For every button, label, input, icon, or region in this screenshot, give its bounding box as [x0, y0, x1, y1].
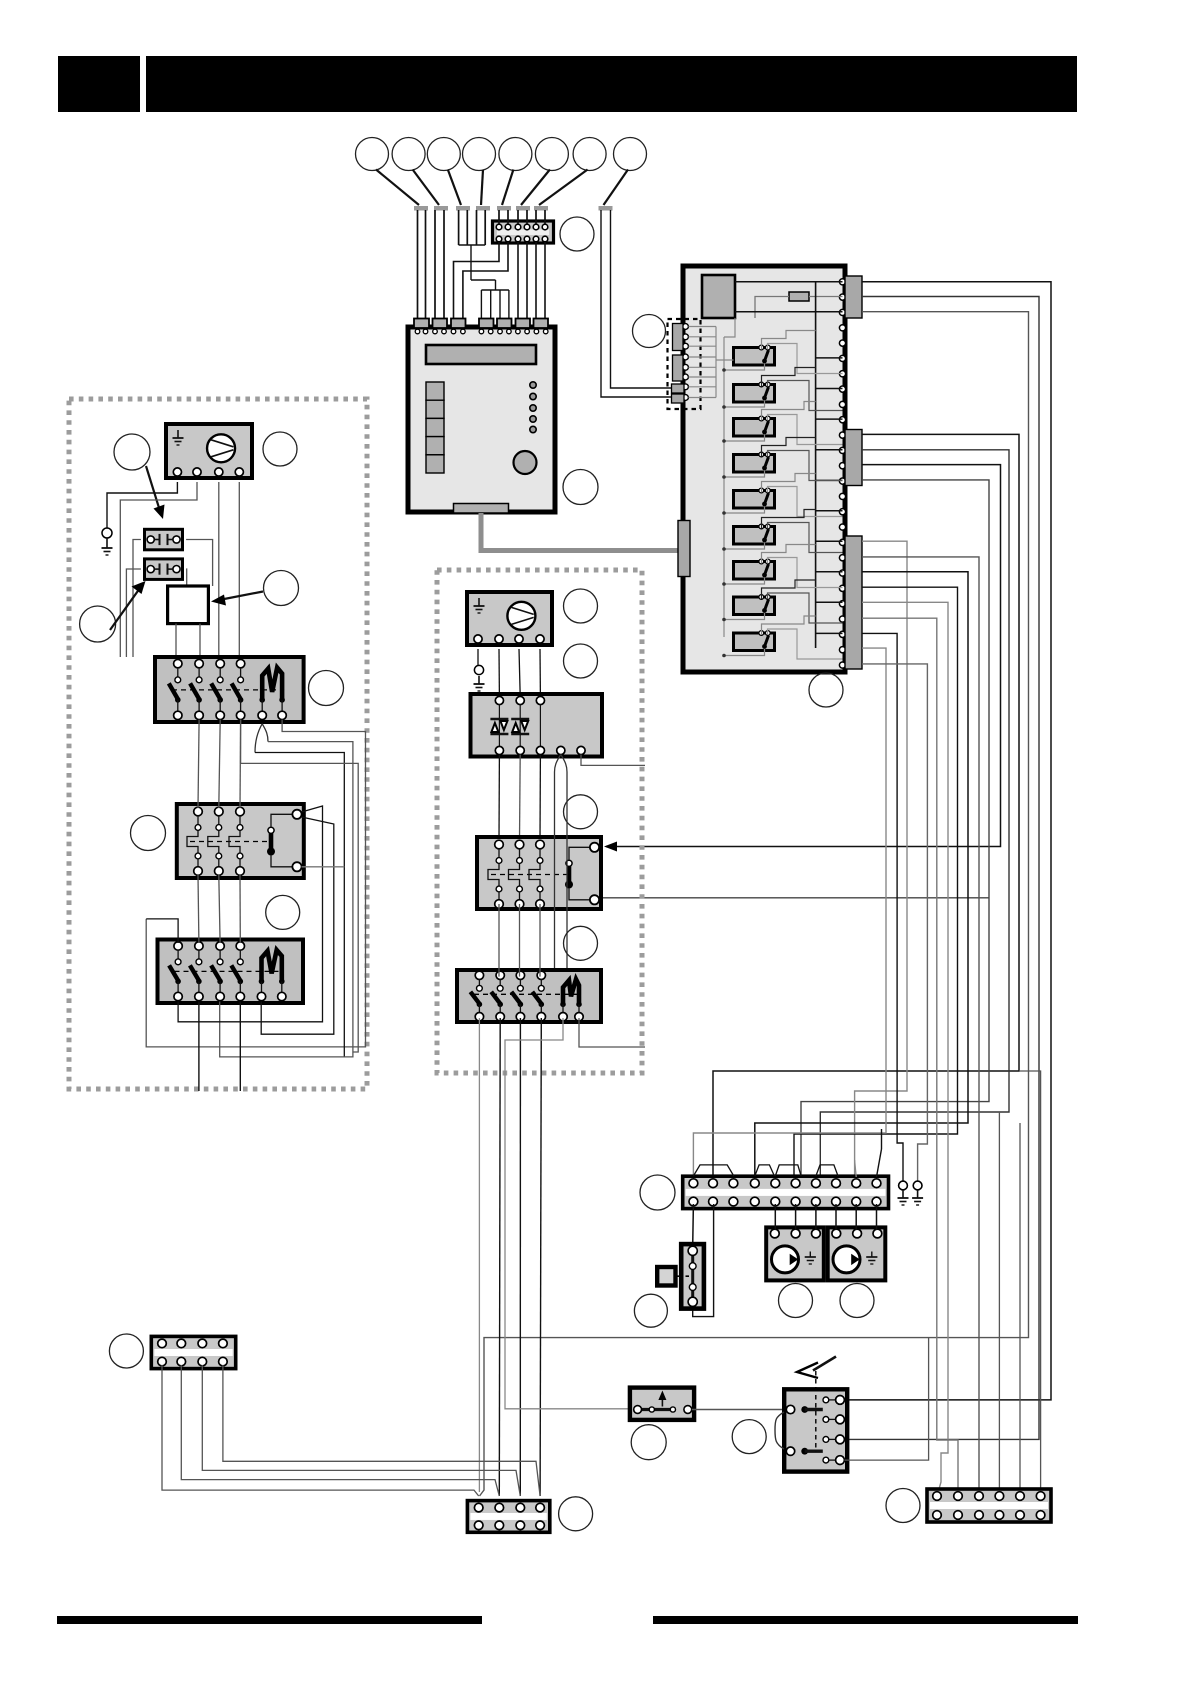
callout circle CN [560, 217, 594, 251]
callout circle B1 [564, 589, 598, 623]
callout circle top 7 [573, 138, 606, 171]
cable marker 2 [434, 206, 448, 211]
callout circle top 8 [614, 138, 647, 171]
relay K3 [734, 416, 775, 436]
strip D gland 2 [755, 1165, 775, 1176]
valve lever indicator [797, 1363, 818, 1379]
controller LED 1 [530, 382, 536, 388]
terminal strip D [683, 1176, 889, 1208]
earth terminal G1 [899, 1181, 908, 1190]
earth wire B [477, 649, 479, 665]
loop contactor A right top fan1 [178, 806, 322, 1022]
wire relay A1 to contactor c3 [239, 720, 242, 808]
wire feeder strip F c6 [1019, 1123, 1021, 1496]
CN terminal top 1 [496, 224, 502, 230]
wire C2 to strip E [181, 1365, 499, 1496]
wire valve pair4 right [845, 1338, 929, 1461]
sensor strip H [681, 1244, 704, 1309]
wire F1 right [186, 540, 213, 587]
callout circle A2 [263, 432, 297, 466]
terminal strip C [151, 1336, 235, 1368]
wire F2 right [185, 569, 188, 586]
left terminals wiring [689, 326, 717, 328]
relay unit plug block C [845, 536, 862, 669]
relay K2 [734, 382, 775, 402]
relay K5 coil wire [724, 507, 765, 514]
relay unit fuse [789, 292, 809, 301]
controller cable gland 5 [497, 319, 512, 329]
cable marker 7 [534, 206, 548, 211]
loop relay A1 col6 [146, 720, 365, 1047]
wire relay A1 to contactor c2 [219, 720, 220, 808]
controller module A (white box) [168, 586, 209, 624]
CN terminal bottom 1 [496, 236, 502, 242]
sensor switch box [657, 1267, 675, 1286]
relay K6 [734, 524, 775, 544]
contactor bank A [177, 804, 304, 878]
callout circle A5 [309, 671, 344, 706]
wire feeder strip F c4 [1019, 1071, 1041, 1496]
callout circle F [886, 1489, 920, 1523]
leader line 8 [604, 170, 629, 206]
leader line 4 [481, 170, 483, 206]
callout circle top 1 [356, 138, 389, 171]
controller LED 4 [530, 416, 536, 422]
connector block CN [493, 221, 554, 243]
module riser [724, 318, 735, 337]
strip D gland 3 [775, 1165, 801, 1176]
strip D gland 1 [693, 1165, 733, 1176]
controller LED 2 [530, 393, 536, 399]
leader line 6 [521, 170, 550, 206]
wire T21 to strip D [794, 587, 958, 1176]
twisted pair triac B [555, 755, 568, 773]
left port block 1 [673, 324, 684, 351]
wire C1 to strip E [162, 1365, 479, 1496]
loop twisted L [255, 753, 344, 1057]
controller cable gland 6 [516, 319, 531, 329]
footer rule right [653, 1616, 1078, 1624]
callout circle C [109, 1334, 143, 1368]
wire T1 to valve [845, 282, 1052, 1400]
3-way valve M [784, 1389, 847, 1471]
controller LED 5 [530, 426, 536, 432]
relay K3 coil wire [724, 435, 765, 442]
terminal strip E [467, 1501, 549, 1533]
controller button 2 [426, 400, 444, 418]
wires strip D to pump P1 [774, 1204, 776, 1230]
wire T2 to valve [845, 297, 1040, 1440]
loop contactor A right bottom [302, 866, 345, 868]
bus to blocks 4-5 [481, 289, 509, 291]
capacitor filter F2 [145, 559, 183, 580]
wire T13 to strip D gland [820, 450, 1009, 1179]
enclosure B dashed border [437, 570, 642, 1073]
wire contactor bottoms to relay A2 [197, 875, 200, 943]
relay unit body [683, 266, 845, 672]
relay unit plug block B [845, 430, 862, 486]
wire relay A1 to contactor c1 [198, 720, 199, 808]
wire T22 to strip F [862, 602, 948, 1496]
wire T25 to strip D [693, 648, 886, 1176]
wire F1 left [133, 540, 141, 658]
wire T3 to terminal strip E1 [480, 312, 1029, 1496]
earth pigtail A [102, 528, 112, 538]
CN wires bottom3-6 to blocks 6-7 [517, 242, 519, 319]
relay K6 coil wire [724, 543, 765, 550]
callout circle top 3 [427, 138, 460, 171]
CN terminal top 4 [524, 224, 530, 230]
leader arrow A4 [219, 592, 263, 601]
relay control wiring mesh [762, 331, 816, 350]
loop contactor A right top fan2 [261, 817, 334, 1034]
wire pair cable4 [476, 210, 478, 245]
callout circle P1 [779, 1284, 813, 1318]
callout circle controller [563, 470, 598, 505]
leader arrow A3 [110, 588, 140, 630]
callout circle FS [631, 1425, 666, 1460]
wire triac B right [581, 755, 645, 766]
wire T15 branch [801, 480, 989, 1176]
pump P1 [766, 1227, 824, 1280]
page header bar [146, 56, 1077, 112]
relay K8 [734, 595, 775, 615]
wire fan t4 [238, 482, 240, 657]
callout circle D [640, 1175, 675, 1210]
leader line 3 [448, 170, 461, 206]
cable marker 5 [497, 206, 511, 211]
CN terminal bottom 6 [542, 236, 548, 242]
controller unit body [408, 327, 555, 512]
callout circle top 2 [392, 138, 425, 171]
cable marker 6 [516, 206, 530, 211]
wire C3 to strip E [202, 1365, 520, 1496]
leader arrow A1 [146, 466, 160, 511]
wires strip D to pump P2 [835, 1204, 837, 1230]
dashed link sensor [677, 1275, 690, 1277]
callout circle B4 [564, 926, 598, 960]
strip D inlet diagonal [881, 1129, 883, 1149]
air handler unit B [467, 592, 552, 645]
internal bus stubs [816, 357, 843, 359]
relay unit module [702, 275, 735, 318]
controller cable gland 2 [433, 319, 448, 329]
cable marker 4 [476, 206, 490, 211]
pump P2 [828, 1227, 886, 1280]
wire relay B2 col1 down [478, 1018, 480, 1492]
relay K1 coil wire [724, 364, 765, 371]
module wire to terminal 1 [735, 281, 843, 283]
wire T24 to earth G1 [862, 633, 903, 1181]
controller cable gland 7 [534, 319, 549, 329]
cable marker 3 [456, 206, 470, 211]
heater relay bank A2 [158, 940, 304, 1004]
wires module A down [175, 624, 177, 657]
wire relay B2 col2 down [498, 1018, 501, 1496]
heater relay bank B2 [457, 970, 601, 1022]
relay K8 coil wire [724, 613, 765, 620]
wire pair cable1 [417, 210, 419, 319]
controller cable gland 1 [414, 319, 429, 329]
wire fan t2 [120, 482, 197, 657]
leader line 1 [376, 170, 419, 206]
relay unit left terminals [683, 324, 689, 330]
callout circle H [634, 1294, 667, 1327]
leader line 2 [413, 170, 439, 206]
CN terminal bottom 4 [524, 236, 530, 242]
CN terminal top 2 [505, 224, 511, 230]
stub wires relay A2 below [198, 1002, 200, 1092]
wire flow switch to valve [692, 1409, 786, 1411]
controller knob [514, 451, 537, 474]
callout circle A1 [114, 434, 150, 470]
wire C4 to strip E [223, 1365, 540, 1496]
wire relay B2 heater right [579, 1018, 645, 1047]
controller cable gland 3 [451, 319, 466, 329]
wire T14 arrow to contactor [606, 465, 1001, 847]
bus junction cable3-4 [459, 244, 486, 246]
callout circle top 6 [535, 138, 568, 171]
callout circle top 4 [463, 138, 496, 171]
left port block 2 [673, 355, 684, 381]
CN terminal bottom 3 [515, 236, 521, 242]
CN terminal top 5 [533, 224, 539, 230]
enclosure A dashed border [69, 399, 367, 1089]
callout circle A6 [131, 816, 166, 851]
leader line 5 [502, 170, 513, 206]
strip D gland 4 [816, 1165, 838, 1176]
loop twisted R [220, 742, 353, 1057]
relay K4 coil wire [724, 471, 765, 478]
wire pair cable2 [434, 210, 436, 319]
internal bus vertical [815, 282, 817, 648]
CN terminal bottom 5 [533, 236, 539, 242]
wire T26 to earth G2 [862, 664, 927, 1181]
footer rule left [57, 1616, 482, 1624]
air handler unit A [166, 424, 252, 478]
controller button 1 [426, 382, 444, 400]
relay K9 coil wire [724, 649, 765, 656]
earth terminal G2 [913, 1181, 922, 1190]
wire relay B2 col4 down [540, 1018, 541, 1496]
relay K2 coil wire [724, 401, 765, 408]
CN wires up to markers [498, 210, 500, 224]
valve bypass brace [775, 1412, 784, 1449]
relay unit plug block A [845, 276, 862, 318]
capacitor filter F1 [145, 529, 183, 550]
callout circle relay unit [809, 673, 843, 707]
controller button 3 [426, 418, 444, 436]
relay K1 [734, 345, 775, 365]
triac module B [471, 694, 603, 757]
wire F2 left [126, 569, 140, 657]
twisted pair relay A1 [255, 724, 268, 753]
wire fan t3 [218, 482, 220, 657]
relay unit right terminals [839, 279, 845, 285]
wire pair cable8 to relay unit [601, 210, 672, 397]
relay unit inlet block [678, 521, 690, 577]
wire T20 to strip D [755, 572, 968, 1179]
internal left bus [723, 337, 725, 637]
wires contactor B to relay B2 [498, 904, 500, 977]
wire T15 contactor branch [601, 897, 989, 899]
controller top terminals [415, 329, 420, 334]
flow switch box [630, 1388, 694, 1420]
module wire to terminal 3 [735, 311, 843, 313]
CN wire bottom2 to block3 [463, 242, 508, 319]
wire T18 to strip D [855, 541, 907, 1179]
arrowhead at contactor [604, 842, 617, 852]
CN wire bottom1 to block3 [454, 242, 500, 319]
heater relay bank A1 [155, 657, 304, 722]
CN terminal top 6 [542, 224, 548, 230]
wire T23 to strip F [862, 618, 958, 1496]
contactor bank B [477, 837, 601, 909]
left port block 4 [672, 394, 685, 403]
callout circle B2 [564, 644, 598, 678]
terminal strip F [927, 1489, 1051, 1522]
wires fan B to triac [498, 649, 500, 696]
controller cable gland 4 [479, 319, 494, 329]
wire relay B2 col3 down [519, 1018, 521, 1496]
controller LED 3 [530, 405, 536, 411]
branch relay A1 col4 [241, 720, 359, 1052]
sensor loop wire [693, 1204, 714, 1317]
callout circle A4 [264, 571, 299, 606]
relay K9 [734, 631, 775, 651]
flow switch arrow [661, 1394, 663, 1407]
controller button 5 [426, 455, 444, 473]
flow switch contacts [638, 1408, 673, 1411]
wire T19 to strip F [862, 557, 979, 1496]
wire pair cable3 [458, 210, 460, 245]
wire strip D to sensor strip [692, 1204, 695, 1246]
wire feeder strip F c5 [998, 1112, 1000, 1496]
callout circle left port [633, 315, 666, 348]
leader line 7 [539, 170, 588, 206]
relay unit left port dashed box [668, 319, 701, 409]
CN terminal top 3 [515, 224, 521, 230]
earth wire A [107, 482, 177, 528]
controller button 4 [426, 437, 444, 455]
wires triac to contactor B [498, 755, 500, 841]
callout circle A3 [80, 606, 116, 642]
callout circle P2 [840, 1284, 874, 1318]
page header block left [58, 56, 140, 112]
callout circle A7 [266, 895, 300, 929]
cable marker 1 [414, 206, 428, 211]
controller bottom tab [454, 504, 509, 514]
fuse wire to terminal 2 [809, 296, 843, 298]
relay K4 [734, 452, 775, 472]
wire T12 to terminal strip D [713, 434, 1019, 1180]
CN terminal bottom 2 [505, 236, 511, 242]
wire relay B2 heater to flow switch [505, 1018, 630, 1409]
callout circle top 5 [499, 138, 532, 171]
relay K7 coil wire [724, 578, 765, 585]
callout circle E [559, 1497, 593, 1531]
callout circle V1 [732, 1420, 766, 1454]
branch to relay A2 col1 [146, 919, 178, 943]
controller display [426, 345, 536, 364]
callout circle B3 [564, 795, 598, 829]
bus cable controller to relay unit [481, 513, 681, 551]
left port block 3 [672, 384, 685, 393]
relay K7 [734, 559, 775, 579]
strip D gray inlet [855, 1160, 857, 1177]
earth pigtail B [474, 665, 483, 674]
relay K5 [734, 488, 775, 508]
cable marker 8 [599, 206, 613, 211]
